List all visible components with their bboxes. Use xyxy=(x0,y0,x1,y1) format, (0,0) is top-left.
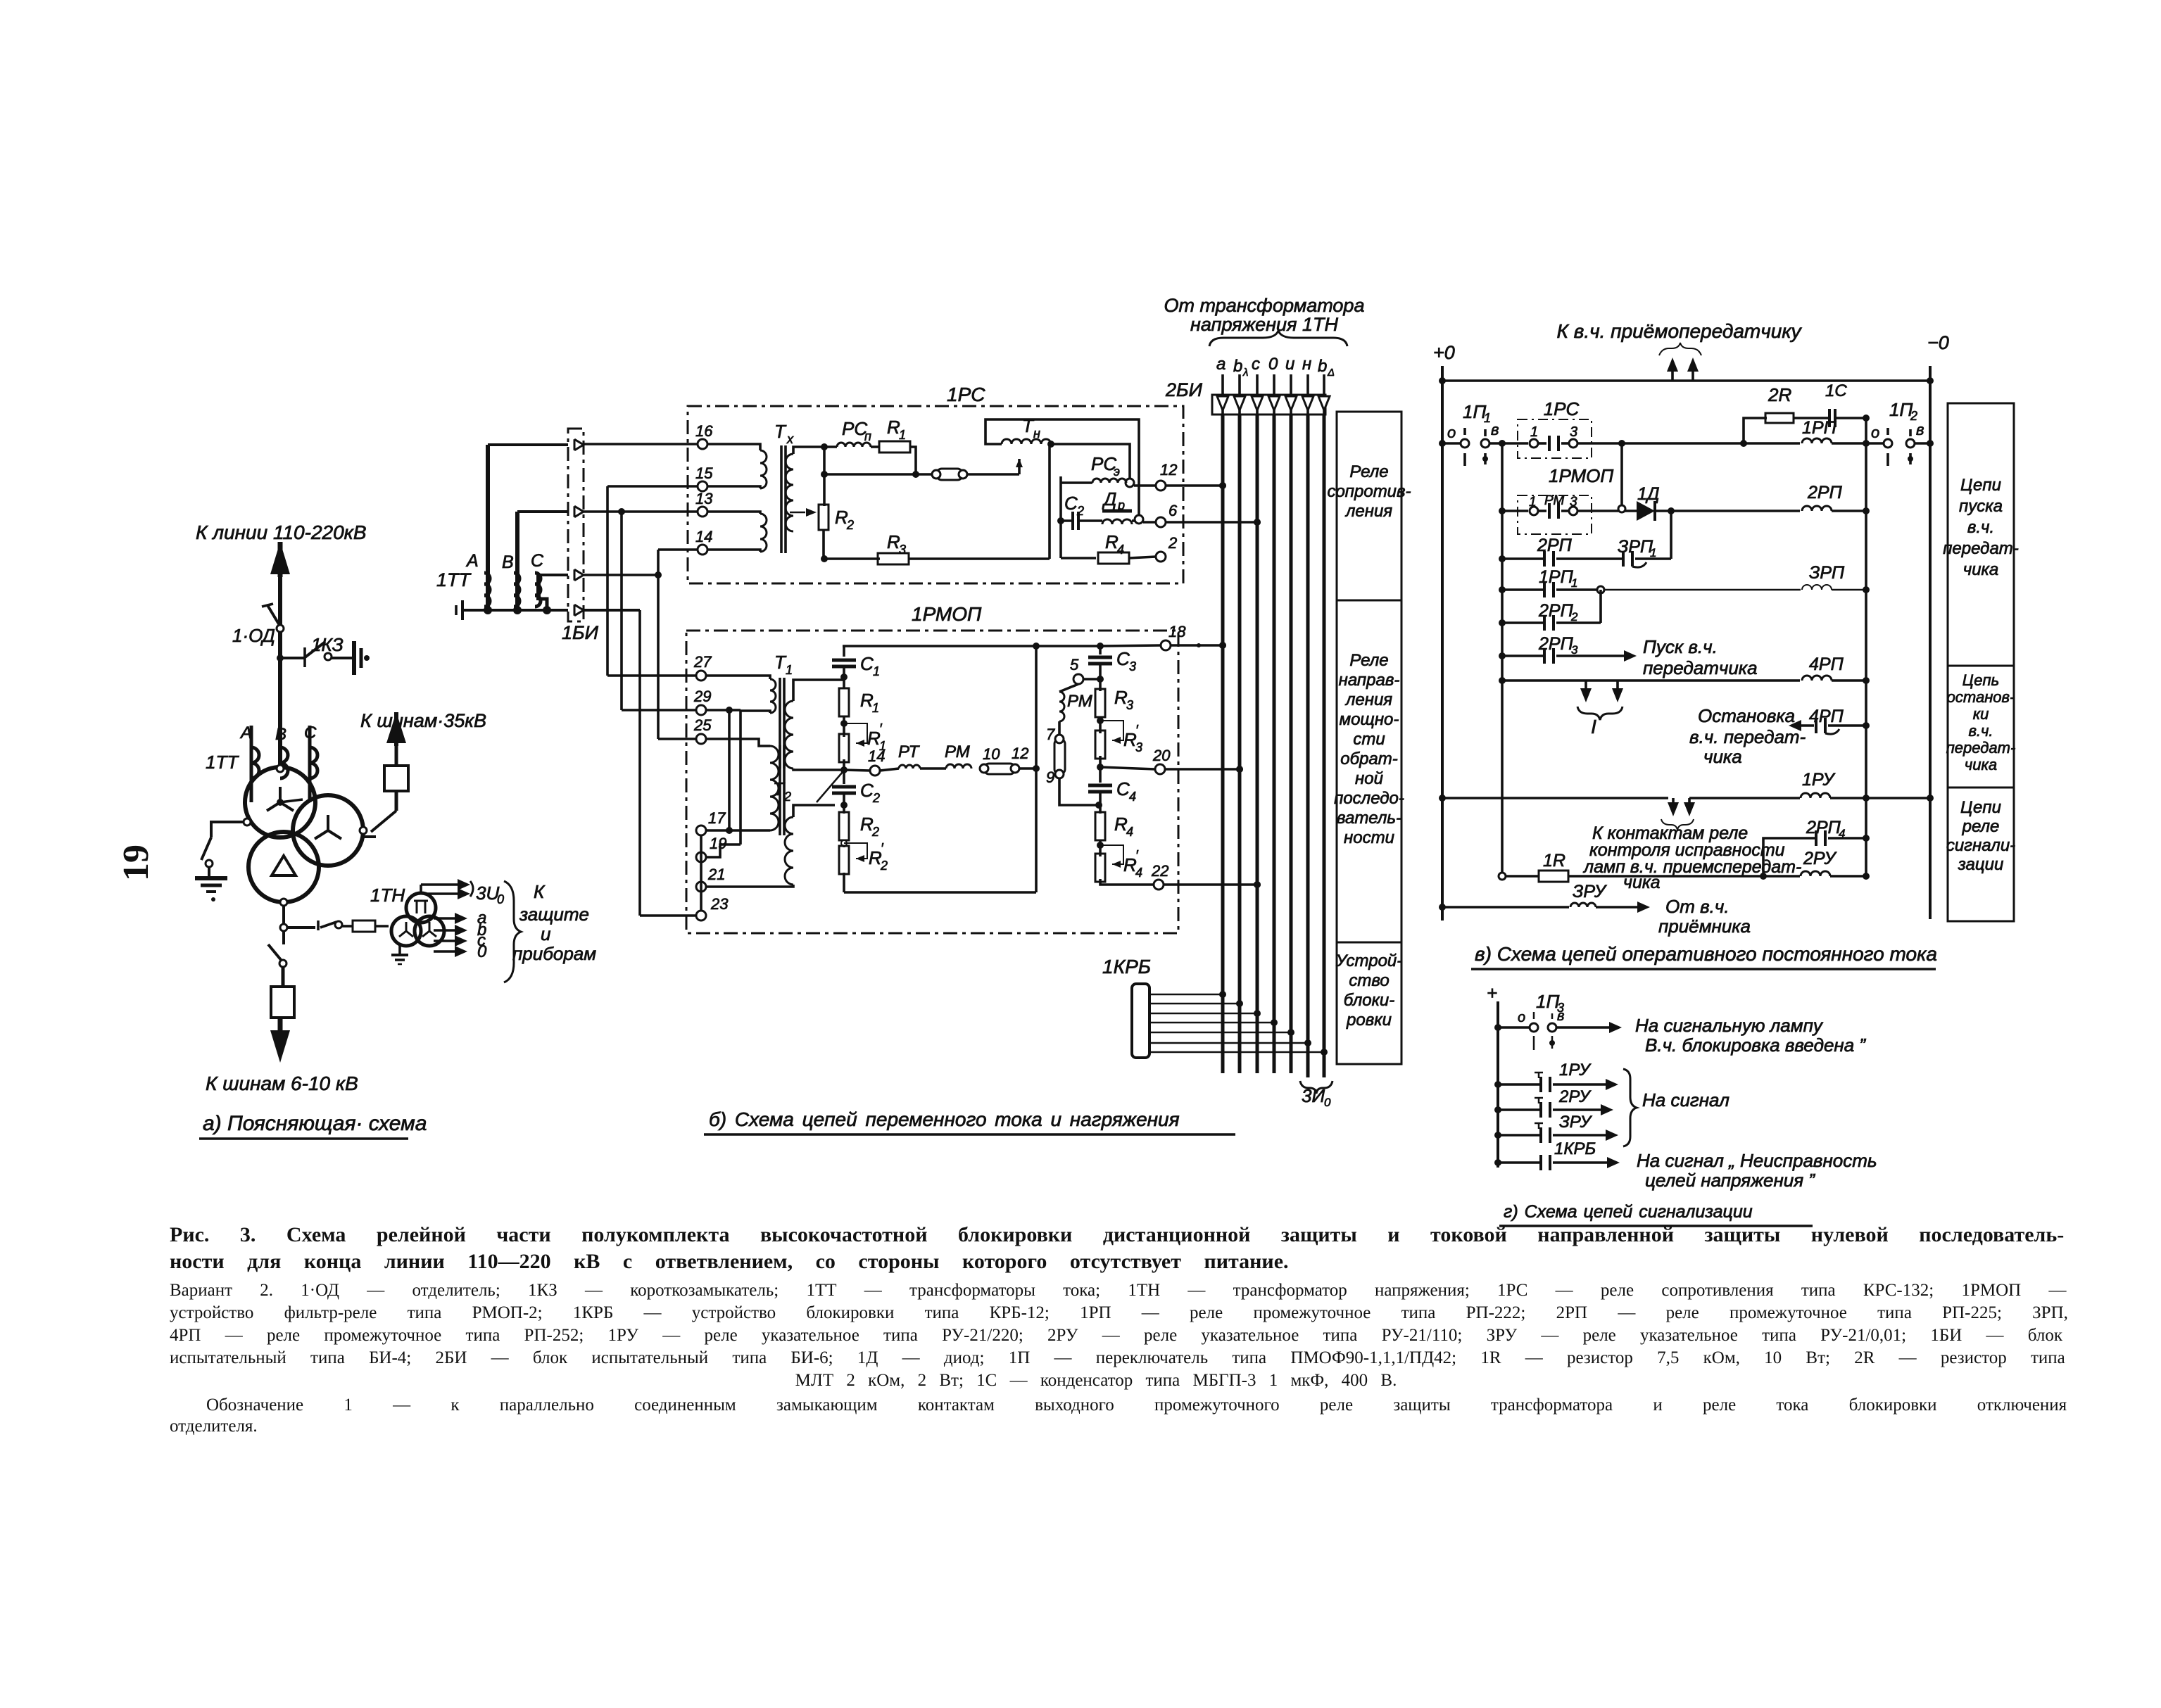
resistor R1 (1РС) xyxy=(879,441,910,453)
svg-text:17: 17 xyxy=(708,809,726,827)
svg-text:МЛТ 2 кОм, 2 Вт; 1С — конденса: МЛТ 2 кОм, 2 Вт; 1С — конденсатор типа М… xyxy=(795,1371,1397,1390)
wire v1052 T1bot-19 xyxy=(739,711,742,844)
label box Цепи реле сигнализации xyxy=(1948,787,2014,921)
rail 1РУ xyxy=(1442,797,1668,799)
svg-text:1: 1 xyxy=(1529,495,1537,510)
svg-text:4: 4 xyxy=(1126,825,1133,839)
wire R1' to 14 node xyxy=(843,759,845,770)
bus 0 vertical xyxy=(1273,415,1276,1073)
svg-text:ЗРУ: ЗРУ xyxy=(1573,882,1608,902)
wire bottom R3 xyxy=(824,557,880,560)
svg-text:в.ч. передат-: в.ч. передат- xyxy=(1689,726,1806,747)
svg-text:1: 1 xyxy=(1530,424,1538,440)
node C1 bottom xyxy=(840,673,848,681)
relay coil 2РУ xyxy=(1801,871,1830,876)
svg-text:1КРБ: 1КРБ xyxy=(1102,956,1151,978)
transformer Т2 secondary xyxy=(785,817,793,885)
wire phase B to 13 xyxy=(517,510,568,513)
svg-text:Вариант 2. 1·ОД — отделитель;: Вариант 2. 1·ОД — отделитель; 1КЗ — коро… xyxy=(170,1281,2067,1300)
branch 2R 1C xyxy=(1744,418,1767,443)
node C2-R2 xyxy=(840,802,848,809)
svg-text:14: 14 xyxy=(695,528,712,545)
transformer 1ТТ phase B xyxy=(280,747,288,778)
wire branch to 1ТН xyxy=(287,926,315,929)
capacitor C2 (РМОП) xyxy=(843,770,845,784)
svg-text:2РП: 2РП xyxy=(1807,483,1843,502)
arrows К контактам xyxy=(1672,798,1675,811)
transformer 1ТТ-б phase B xyxy=(515,512,519,608)
svg-text:0: 0 xyxy=(1268,355,1278,374)
wire 14 xyxy=(658,548,698,551)
disconnector 1ОД xyxy=(267,605,280,626)
relay block 1РМОП box xyxy=(686,631,1178,933)
svg-text:1: 1 xyxy=(872,701,879,715)
wire 17 to T2 xyxy=(706,829,770,832)
svg-text:9: 9 xyxy=(1046,768,1054,786)
svg-text:К: К xyxy=(534,881,546,902)
svg-text:4РП: 4РП xyxy=(1809,654,1844,674)
svg-text:−0: −0 xyxy=(1927,332,1949,353)
transformer Тх primary upper xyxy=(707,444,760,450)
svg-text:23: 23 xyxy=(710,895,729,913)
bus и vertical xyxy=(1290,415,1293,1073)
terminal 2 xyxy=(1156,552,1166,562)
terminal 16 xyxy=(698,439,707,449)
svg-text:R: R xyxy=(860,690,874,711)
wire winding3 down xyxy=(282,902,285,928)
svg-text:а) Поясняющая· схема: а) Поясняющая· схема xyxy=(203,1112,427,1135)
capacitor C1 (РМОП) xyxy=(843,646,845,657)
wire v1472 xyxy=(1035,646,1038,892)
node transformer top xyxy=(277,765,284,772)
svg-text:2РУ: 2РУ xyxy=(1803,849,1837,868)
svg-text:Реле: Реле xyxy=(1349,462,1388,481)
wire Тн right to РСэ node xyxy=(1051,444,1130,478)
svg-text:1·ОД: 1·ОД xyxy=(232,625,275,646)
svg-text:р: р xyxy=(1117,498,1125,512)
svg-text:+0: +0 xyxy=(1433,342,1455,363)
svg-text:На сигнальную лампу: На сигнальную лампу xyxy=(1635,1015,1824,1036)
short-circuiter 1КЗ switch xyxy=(304,642,325,658)
svg-text:1П: 1П xyxy=(1463,401,1486,422)
svg-text:ЗРП: ЗРП xyxy=(1809,563,1845,583)
wire C1 top xyxy=(843,645,1100,647)
svg-text:R: R xyxy=(1123,729,1137,750)
transformer 1ТТ phase A xyxy=(250,726,253,802)
node R1-R1' xyxy=(843,716,845,737)
svg-text:2: 2 xyxy=(880,859,888,873)
svg-text:10: 10 xyxy=(983,745,1000,763)
svg-text:чика: чика xyxy=(1965,756,1997,773)
transformer Т1 secondary xyxy=(785,701,793,768)
power transformer winding 2 (star) xyxy=(293,795,363,866)
wire 2РП2 up xyxy=(1599,590,1602,623)
wire R1 to middle xyxy=(910,447,916,474)
wire vert 2305 xyxy=(1620,443,1623,505)
wire to 1КЗ xyxy=(280,657,304,659)
svg-text:н: н xyxy=(1302,355,1311,374)
terminal 18 xyxy=(1161,640,1171,650)
wire Тн right down xyxy=(1048,445,1051,559)
bus b vertical xyxy=(1238,415,1242,1073)
wire 2РП to bus xyxy=(1832,510,1866,512)
svg-text:1: 1 xyxy=(899,428,906,442)
svg-text:К линии 110-220кВ: К линии 110-220кВ xyxy=(196,521,367,543)
svg-text:1П: 1П xyxy=(1889,399,1913,420)
svg-text:12: 12 xyxy=(1160,461,1177,479)
svg-text:С: С xyxy=(860,780,874,801)
svg-text:R: R xyxy=(1123,854,1137,875)
ground symbol 1ТТ-б xyxy=(461,600,464,620)
svg-text:27: 27 xyxy=(693,653,712,671)
transformer Т1 primary xyxy=(706,676,770,679)
inductor РМ (vertical) xyxy=(1059,684,1078,692)
svg-text:21: 21 xyxy=(707,866,725,883)
terminal 14 xyxy=(698,545,707,555)
terminal 13 xyxy=(698,507,707,517)
wire to terminal 20 xyxy=(1100,767,1155,769)
svg-text:г) Схема цепей сигнализации: г) Схема цепей сигнализации xyxy=(1504,1202,1753,1222)
capacitor C3 xyxy=(1099,646,1102,654)
wire v863 15-27 xyxy=(606,486,609,676)
wire middle to Тн tap xyxy=(967,473,1019,476)
svg-text:испытательный типа БИ-4; 2БИ —: испытательный типа БИ-4; 2БИ — блок испы… xyxy=(170,1348,2065,1367)
rail 2РП2 xyxy=(1502,621,1544,624)
inductor РМ (series) xyxy=(920,767,946,770)
svg-text:б) Схема цепей переменного ток: б) Схема цепей переменного тока и нагряж… xyxy=(709,1108,1180,1130)
svg-text:К в.ч. приёмопередатчику: К в.ч. приёмопередатчику xyxy=(1556,320,1802,342)
wire R4' to 22 xyxy=(1100,879,1154,885)
wire Др to 6 xyxy=(1132,519,1135,522)
ground symbol 1КЗ xyxy=(352,641,356,675)
svg-text:R: R xyxy=(835,507,848,528)
wire 1П1 to 1РС contact xyxy=(1489,442,1528,445)
bus a vertical xyxy=(1221,415,1225,1073)
transformer Тх primary lower xyxy=(707,512,760,514)
wire 12 to bus a xyxy=(1166,484,1223,487)
wire terminals 17-23 link xyxy=(700,835,703,911)
wire coil return vertical xyxy=(1865,443,1867,876)
svg-text:1РП: 1РП xyxy=(1802,418,1837,438)
relay coil ЗРУ xyxy=(1570,903,1596,907)
svg-text:С: С xyxy=(531,551,544,571)
ground symbol 1ТН xyxy=(398,946,401,955)
svg-text:отделителя.: отделителя. xyxy=(170,1417,258,1436)
svg-text:2: 2 xyxy=(872,791,880,805)
svg-text:передатчика: передатчика xyxy=(1643,657,1758,678)
svg-text:целей напряжения ”: целей напряжения ” xyxy=(1645,1170,1815,1191)
bus c vertical xyxy=(1256,415,1259,1073)
svg-text:R: R xyxy=(887,417,900,438)
svg-text:в.ч.: в.ч. xyxy=(1967,518,1994,537)
node R2-R2' xyxy=(843,840,845,847)
potentiometer R4' xyxy=(1095,854,1105,882)
svg-text:7: 7 xyxy=(1046,726,1055,743)
wire reed to v1472 xyxy=(1019,767,1036,770)
contact reed 7-9 xyxy=(1058,721,1061,739)
svg-text:сопротив-: сопротив- xyxy=(1327,482,1411,501)
wire Т2 secondary bottom to 21 xyxy=(706,885,793,887)
svg-text:направ-: направ- xyxy=(1339,671,1400,690)
wire v1036 29-17 xyxy=(728,710,731,830)
svg-text:ления: ления xyxy=(1344,690,1392,709)
resistor R4 (РМОП) xyxy=(1099,805,1102,814)
ground switch blade xyxy=(201,837,211,860)
relay block 1РС box xyxy=(688,406,1183,583)
ground symbol neutral xyxy=(195,876,227,880)
svg-text:R: R xyxy=(1105,531,1119,552)
svg-text:0: 0 xyxy=(1324,1096,1331,1109)
wire 6 to bus c xyxy=(1166,521,1257,524)
svg-text:4: 4 xyxy=(1135,866,1142,880)
wire 18 line xyxy=(1100,645,1161,646)
wire R2' bottom xyxy=(843,873,845,892)
wire 35kV to winding 2 xyxy=(363,830,376,837)
svg-text:в: в xyxy=(1491,421,1499,438)
svg-text:4: 4 xyxy=(1117,543,1124,557)
junction bus dots xyxy=(1219,482,1226,489)
svg-text:РС: РС xyxy=(1091,453,1116,474)
svg-text:2: 2 xyxy=(1570,610,1578,624)
voltage transformer 1ТН circles xyxy=(406,893,436,923)
svg-text:н: н xyxy=(1033,426,1040,441)
svg-text:3: 3 xyxy=(1135,740,1142,754)
test block 1БИ xyxy=(568,429,584,621)
svg-text:1: 1 xyxy=(786,663,793,677)
wire 29 to v1036 xyxy=(706,709,729,711)
svg-text:1: 1 xyxy=(1571,576,1577,590)
wire 1РМОП rail xyxy=(1502,510,1528,512)
svg-text:п: п xyxy=(864,429,871,443)
transformer Т1 core xyxy=(779,678,781,768)
contact reed middle xyxy=(936,469,963,480)
blocking device 1КРБ xyxy=(1132,984,1149,1058)
resistor R4 (1РС) xyxy=(1061,557,1096,559)
wire Тн top loop xyxy=(985,419,1139,514)
wire 25 stub xyxy=(658,738,696,740)
wire island vertical xyxy=(1059,476,1062,558)
svg-text:18: 18 xyxy=(1168,623,1186,640)
switch to 35kV bus xyxy=(371,811,396,832)
bus signal vertical xyxy=(1497,1001,1499,1168)
potentiometer R1' (РМОП) xyxy=(839,734,849,762)
wire top rail with arrows xyxy=(1442,379,1930,382)
svg-text:сти: сти xyxy=(1353,730,1385,749)
brace 1ТН xyxy=(1209,331,1347,346)
svg-text:0: 0 xyxy=(477,942,487,961)
wire 29 stub xyxy=(622,709,696,711)
svg-text:и: и xyxy=(541,923,550,944)
rail Остановка 4РП xyxy=(1789,720,1801,731)
wire Тх secondary top to node A xyxy=(793,447,824,454)
svg-text:защите: защите xyxy=(519,904,589,925)
svg-text:От трансформатора: От трансформатора xyxy=(1164,295,1365,316)
brace 3И0 xyxy=(1300,1081,1332,1094)
arrow К шинам 6-10кВ xyxy=(278,1018,283,1050)
svg-text:1ТТ: 1ТТ xyxy=(436,569,472,590)
svg-text:На сигнал „ Неисправность: На сигнал „ Неисправность xyxy=(1637,1150,1877,1171)
node junction 1КЗ branch xyxy=(277,654,284,662)
node R3-R3' xyxy=(1099,717,1102,733)
wire 1КРБ 3 xyxy=(1149,1013,1257,1015)
wire Т1 secondary bottom to 14-wire xyxy=(793,768,844,770)
svg-text:В.ч. блокировка введена ”: В.ч. блокировка введена ” xyxy=(1645,1035,1866,1056)
relay coil 4РП xyxy=(1802,676,1832,681)
svg-text:РТ: РТ xyxy=(898,742,921,761)
svg-text:2РП: 2РП xyxy=(1806,818,1841,837)
svg-text:передат-: передат- xyxy=(1943,539,2019,558)
svg-text:От в.ч.: От в.ч. xyxy=(1665,896,1730,917)
svg-text:устройство фильтр-реле типа РМ: устройство фильтр-реле типа РМОП-2; 1КРБ… xyxy=(170,1303,2068,1322)
svg-text:Цепи: Цепи xyxy=(1960,798,2001,817)
svg-text:в: в xyxy=(1916,421,1924,438)
wire phase A to 16 xyxy=(488,443,568,446)
resistor R1 (РМОП) xyxy=(843,677,845,688)
svg-text:1РМОП: 1РМОП xyxy=(1549,465,1613,486)
svg-text:1РМОП: 1РМОП xyxy=(912,603,982,625)
wire 27 stub xyxy=(607,674,696,677)
transformer 1ТТ-б phase C xyxy=(536,575,541,600)
wire node A down xyxy=(823,447,826,506)
svg-text:К шинам 6-10 кВ: К шинам 6-10 кВ xyxy=(206,1073,358,1094)
wire 1РП1 to ЗРП coil xyxy=(1605,589,1801,591)
wire bottom to Тн right xyxy=(909,557,1050,560)
wire line bus up xyxy=(278,557,282,768)
switch to 1ТН xyxy=(320,922,336,928)
arrows I xyxy=(1584,681,1587,697)
breaker box 6-10kV xyxy=(282,967,285,987)
svg-text:РМ: РМ xyxy=(1067,692,1092,711)
svg-text:1Д: 1Д xyxy=(1637,484,1660,504)
relay coil 2РП xyxy=(1802,506,1832,511)
svg-text:3: 3 xyxy=(1570,424,1577,440)
svg-text:2БИ: 2БИ xyxy=(1165,379,1203,400)
svg-text:2: 2 xyxy=(1168,534,1177,552)
svg-text:блоки-: блоки- xyxy=(1344,991,1395,1010)
svg-text:1С: 1С xyxy=(1825,381,1847,400)
svg-text:2: 2 xyxy=(1076,504,1084,518)
svg-text:В: В xyxy=(502,552,514,572)
svg-text:К шинам·35кВ: К шинам·35кВ xyxy=(360,710,486,731)
svg-text:приёмника: приёмника xyxy=(1658,916,1751,937)
svg-text:R: R xyxy=(887,531,900,552)
svg-text:Δ: Δ xyxy=(1327,367,1335,379)
wire v909 ground-23 xyxy=(638,610,641,916)
svg-text:ности: ности xyxy=(1344,828,1394,847)
rail 2РП3 xyxy=(1502,654,1544,657)
svg-text:λ: λ xyxy=(1242,367,1248,379)
wire 1C to node xyxy=(1835,418,1866,443)
inductor РТ xyxy=(880,768,899,771)
svg-text:в: в xyxy=(1557,1008,1564,1024)
wire 19 jog xyxy=(706,844,741,857)
wire 22 to bus c xyxy=(1164,883,1257,886)
svg-text:1: 1 xyxy=(873,664,880,678)
svg-text:c: c xyxy=(1252,355,1260,374)
svg-text:ство: ство xyxy=(1349,971,1389,990)
choke Др xyxy=(1078,519,1102,522)
svg-text:о: о xyxy=(1447,424,1456,441)
svg-text:R: R xyxy=(869,847,882,868)
wire v883 13-29 xyxy=(620,512,623,710)
wire 1РП to 1П2 xyxy=(1832,442,1884,445)
svg-text:15: 15 xyxy=(695,464,713,482)
potentiometer R3' xyxy=(1095,730,1105,759)
svg-text:3: 3 xyxy=(899,543,906,557)
terminal 29 xyxy=(696,705,706,715)
svg-text:+: + xyxy=(1487,982,1497,1004)
svg-text:пуска: пуска xyxy=(1959,497,2003,516)
svg-text:чика: чика xyxy=(1963,560,1998,579)
svg-text:6: 6 xyxy=(1168,502,1178,519)
wire diode to 2РП xyxy=(1655,510,1800,512)
svg-text:обрат-: обрат- xyxy=(1340,749,1398,768)
terminal 17 xyxy=(696,825,706,835)
wires 2БИ top stubs xyxy=(1221,374,1224,415)
svg-text:3: 3 xyxy=(1129,659,1136,673)
svg-text:останов-: останов- xyxy=(1947,688,2015,706)
svg-text:16: 16 xyxy=(695,422,713,440)
svg-text:Цепи: Цепи xyxy=(1960,476,2001,495)
svg-text:напряжения 1ТН: напряжения 1ТН xyxy=(1190,314,1338,335)
svg-text:С: С xyxy=(1116,648,1130,669)
svg-text:э: э xyxy=(1114,464,1120,479)
arrow to line 110-220 xyxy=(270,542,290,574)
svg-text:Устрой-: Устрой- xyxy=(1335,951,1403,970)
svg-text:25: 25 xyxy=(693,716,712,734)
wire 25 to T2 top xyxy=(706,739,770,746)
svg-text:1БИ: 1БИ xyxy=(562,622,599,643)
diagonal tap wire xyxy=(817,772,843,802)
svg-text:РМ: РМ xyxy=(1544,493,1564,508)
contact reed 10-12 xyxy=(980,767,984,770)
bus negative vertical xyxy=(1929,366,1932,919)
terminal 14 (РМОП) xyxy=(844,770,870,771)
capacitor 1С xyxy=(1828,409,1831,427)
terminal 19 xyxy=(696,852,706,862)
svg-text:1П: 1П xyxy=(1536,991,1559,1012)
transformer 1ТТ phase C xyxy=(308,726,312,802)
label box Цепь остановки xyxy=(1948,666,2014,787)
svg-text:4: 4 xyxy=(1129,790,1136,804)
svg-text:На сигнал: На сигнал xyxy=(1642,1089,1730,1111)
wire 1КРБ 6 xyxy=(1149,1042,1308,1044)
potentiometer R2 (1РС) xyxy=(790,512,805,514)
transformer Т2 primary xyxy=(770,746,779,830)
svg-text:ламп в.ч. приемспередат-: ламп в.ч. приемспередат- xyxy=(1582,857,1801,877)
wire 1КРБ 5 xyxy=(1149,1032,1291,1034)
capacitor C2 (1РС) xyxy=(1061,519,1073,522)
svg-text:1R: 1R xyxy=(1543,851,1565,871)
svg-text:А: А xyxy=(465,551,479,571)
wire 15 xyxy=(607,485,698,488)
svg-text:1: 1 xyxy=(1650,546,1656,559)
transformer Тх core xyxy=(780,445,783,553)
svg-text:и: и xyxy=(1285,355,1294,374)
svg-text:х: х xyxy=(786,432,794,446)
svg-text:РС: РС xyxy=(842,418,867,439)
svg-text:Рис. 3. Схема релейной части п: Рис. 3. Схема релейной части полукомплек… xyxy=(170,1223,2064,1246)
label box Реле направления мощности xyxy=(1337,600,1401,942)
wire inner vertical left xyxy=(1501,443,1504,876)
terminal 25 xyxy=(696,734,706,744)
wire phase C xyxy=(538,574,568,576)
wire v935 14-25 xyxy=(657,550,660,739)
svg-text:РМ: РМ xyxy=(945,742,970,761)
svg-text:Т: Т xyxy=(774,421,787,442)
wire Т2 secondary top xyxy=(793,805,835,817)
bus bΔ vertical xyxy=(1323,415,1326,1077)
